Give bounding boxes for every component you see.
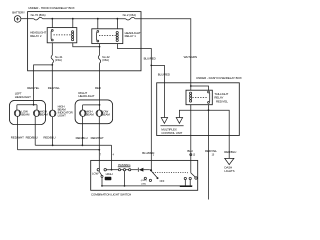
wire main bus bbox=[43, 18, 126, 20]
lighting switch contact head bbox=[149, 179, 151, 181]
wire bus to relay1 pin2 bbox=[116, 19, 118, 29]
svg-text:BLU/RED: BLU/RED bbox=[158, 72, 170, 76]
svg-text:No.41(15A): No.41(15A) bbox=[55, 55, 63, 62]
lighting switch arm 1 contact bbox=[157, 177, 159, 179]
combination light switch box bbox=[91, 160, 198, 190]
fuse No.41 (15A) bbox=[51, 55, 63, 63]
svg-text:OFF: OFF bbox=[160, 180, 165, 183]
svg-text:LOW: LOW bbox=[92, 171, 99, 175]
ground bus thick segment bbox=[180, 185, 192, 187]
svg-text:RED/YEL: RED/YEL bbox=[27, 86, 39, 90]
node bus tap relay2 pin1 bbox=[51, 18, 53, 20]
svg-text:RED/BLU: RED/BLU bbox=[26, 136, 38, 140]
wire BLU/RED to combination switch bbox=[150, 65, 152, 170]
wire left low beam down bbox=[17, 125, 19, 150]
lighting switch contact 2a bbox=[184, 177, 186, 179]
node dimmer arm bus bbox=[101, 185, 103, 187]
svg-text:RED/BLU: RED/BLU bbox=[43, 136, 55, 140]
node right high to bus bbox=[82, 144, 84, 146]
svg-text:BLU/RED: BLU/RED bbox=[144, 56, 156, 60]
wire battery to under-hood box bbox=[21, 18, 34, 20]
node RED/YEL junction bbox=[208, 109, 210, 111]
wire junction to left headlight feed bbox=[34, 65, 53, 105]
under-dash fuse/relay box bbox=[157, 83, 240, 136]
node high bus junction bbox=[111, 169, 113, 171]
node relay1 contact out bbox=[99, 46, 101, 48]
left headlight assembly bbox=[10, 100, 46, 124]
wire relay1 coil out BLU/RED bbox=[117, 44, 151, 66]
wire passing mid contact to ground bus bbox=[124, 171, 126, 186]
dimmer switch arm contact bbox=[101, 175, 103, 177]
wire high beam bus bbox=[35, 144, 111, 146]
wire bus to relay2 pin1 bbox=[51, 19, 53, 28]
wire low beam bus bbox=[18, 149, 100, 151]
svg-text:WHT/GRN: WHT/GRN bbox=[184, 55, 197, 59]
diode D bbox=[138, 168, 150, 172]
wire bus to relay1 pin1 bbox=[97, 19, 99, 29]
wire WHT/GRN to taillight relay coil bbox=[190, 83, 192, 90]
battery B1 bbox=[12, 11, 25, 23]
node bus tap relay1 pin1 bbox=[97, 18, 99, 20]
svg-text:COMBINATION LIGHT SWITCH: COMBINATION LIGHT SWITCH bbox=[91, 193, 131, 197]
node bus tap relay1 pin2 bbox=[117, 18, 119, 20]
wire relay2 contact out to fuse No.41 bbox=[51, 43, 53, 55]
ground bus wire bbox=[102, 185, 192, 187]
wire junction to multiplex arrow 2 bbox=[179, 110, 208, 116]
lighting switch pivot 2 bbox=[191, 173, 197, 179]
wire left high beam down bbox=[34, 125, 36, 146]
multiplex arrow 2 bbox=[176, 116, 182, 123]
wire high bus down to dimmer bbox=[106, 145, 112, 169]
svg-text:BLU: BLU bbox=[187, 149, 192, 153]
node lighting switch pivot 1 bbox=[150, 169, 152, 171]
lighting switch contact off bbox=[144, 177, 146, 179]
node right low to bus bbox=[98, 149, 100, 151]
wire junction to high beam indicator bbox=[51, 65, 53, 110]
svg-text:UNDER - DASH FUSE/RELAY BOX: UNDER - DASH FUSE/RELAY BOX bbox=[196, 76, 242, 80]
wire bus to relay2 pin2 bbox=[72, 19, 74, 28]
svg-text:UNDER - HOOD FUSE/RELAY BOX: UNDER - HOOD FUSE/RELAY BOX bbox=[28, 6, 74, 10]
dimmer switch arm bbox=[99, 171, 102, 176]
wire WHT/GRN to taillight relay contact bbox=[191, 86, 209, 90]
svg-text:No.70 (80A): No.70 (80A) bbox=[31, 13, 46, 17]
svg-text:No.42(15A): No.42(15A) bbox=[102, 55, 110, 62]
wire BLU/RED branch to multiplex bbox=[151, 65, 164, 116]
under-hood fuse/relay box bbox=[28, 12, 141, 71]
svg-text:RED: RED bbox=[95, 86, 101, 90]
svg-text:No.2 (15A): No.2 (15A) bbox=[123, 13, 136, 17]
node WHT/GRN split bbox=[190, 85, 192, 87]
right headlight assembly bbox=[75, 100, 113, 124]
node junction fuse41 out bbox=[51, 64, 53, 66]
svg-text:RED/BLU: RED/BLU bbox=[76, 136, 88, 140]
svg-text:RED/WHT: RED/WHT bbox=[11, 136, 24, 140]
node BLU/RED split bbox=[150, 65, 152, 67]
wire relay1 contact down to fuse No.42 bbox=[99, 44, 101, 56]
mechanical link dashes bbox=[153, 171, 188, 173]
multiplex bracket line bbox=[160, 125, 183, 127]
relay headlight relay 1 bbox=[92, 29, 123, 44]
fuse No.70 (80A) bbox=[31, 13, 46, 20]
wire right high beam down bbox=[81, 124, 83, 146]
wire taillight relay contact out bbox=[208, 105, 210, 200]
svg-text:RED/WHT: RED/WHT bbox=[91, 136, 104, 140]
svg-text:RED/YEL: RED/YEL bbox=[216, 100, 228, 104]
svg-text:BLU/RED: BLU/RED bbox=[142, 151, 154, 155]
wire indicator down bbox=[52, 117, 54, 146]
connector on BLU wire bbox=[190, 154, 192, 156]
node bus tap relay2 pin2 bbox=[72, 18, 74, 20]
svg-text:RED/BLU: RED/BLU bbox=[224, 150, 236, 154]
label PASS bbox=[105, 177, 112, 181]
relay headlight relay 2 bbox=[47, 28, 77, 43]
wire right low beam down bbox=[98, 124, 100, 170]
dash lights arrow bbox=[225, 158, 234, 164]
svg-text:(OFF): (OFF) bbox=[141, 180, 147, 182]
wire contact 2a to bus bbox=[184, 180, 186, 187]
wire fuse No.2 to WHT/GRN drop bbox=[135, 19, 191, 83]
lighting switch arm 1 bbox=[151, 171, 157, 178]
svg-text:HIGH: HIGH bbox=[106, 172, 113, 176]
wire fuse No.41 to junction bbox=[51, 63, 53, 65]
wire relay2 coil out to relay1 contact bbox=[73, 43, 100, 47]
dimmer switch low terminal bbox=[97, 169, 99, 171]
wire dimmer arm to ground bus bbox=[101, 177, 103, 186]
svg-text:RED/YEL: RED/YEL bbox=[48, 86, 60, 90]
svg-text:(ON): (ON) bbox=[141, 184, 146, 186]
passing switch link line bbox=[118, 166, 131, 168]
multiplex arrow 1 bbox=[161, 116, 167, 123]
high beam indicator light bbox=[49, 110, 56, 117]
fuse No.2 (15A) bbox=[123, 13, 136, 20]
wire junction to dash lights bbox=[209, 110, 230, 158]
svg-text:PASS: PASS bbox=[105, 178, 112, 181]
svg-text:BATTERY: BATTERY bbox=[12, 11, 25, 15]
node indicator to bus bbox=[52, 144, 54, 146]
wire contact 2b to bus bbox=[189, 180, 191, 187]
passing switch contacts bbox=[112, 169, 138, 171]
wire taillight relay coil out BLU bbox=[190, 105, 192, 173]
relay taillight relay bbox=[186, 90, 212, 105]
dimmer switch high terminal bbox=[104, 169, 106, 171]
wire fuse No.42 to right headlight bbox=[99, 63, 101, 105]
lighting switch contact 2b bbox=[189, 177, 191, 179]
svg-text:PASSING: PASSING bbox=[118, 163, 131, 167]
node passing bus bbox=[124, 185, 126, 187]
fuse No.42 (15A) bbox=[98, 55, 110, 63]
svg-text:RED/YEL: RED/YEL bbox=[205, 149, 217, 153]
